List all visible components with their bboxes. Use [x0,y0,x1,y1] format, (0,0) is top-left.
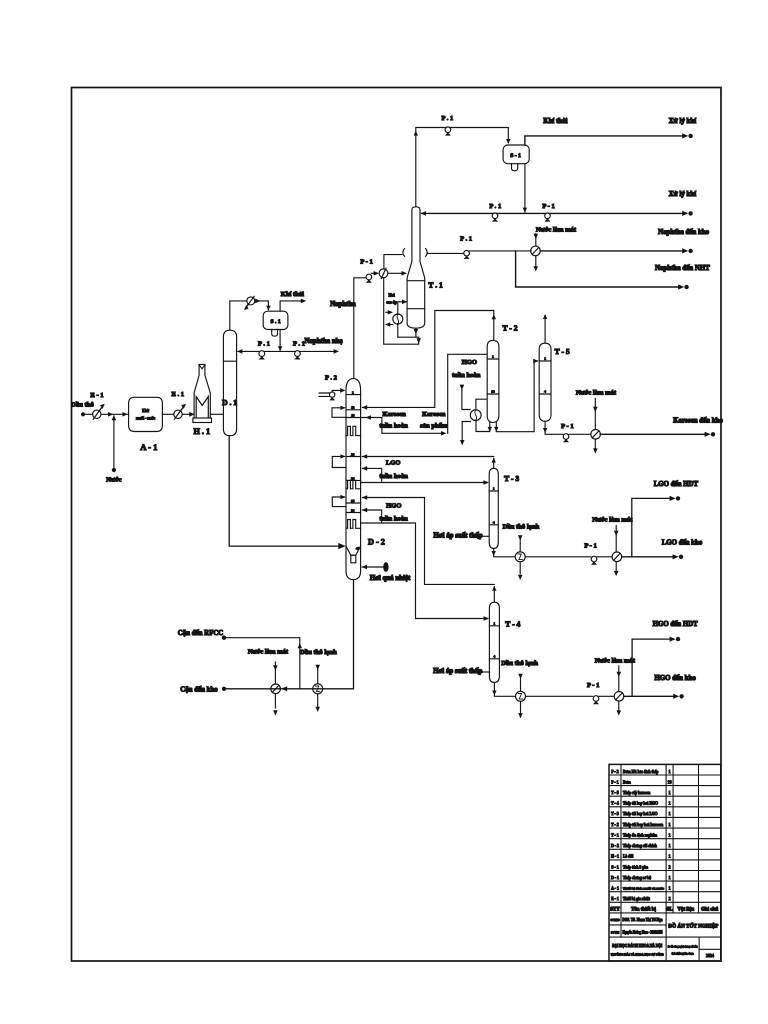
tray 1 [346,391,361,395]
svg-text:2: 2 [669,897,671,901]
svg-text:Tháp chưng sơ bộ: Tháp chưng sơ bộ [623,876,651,880]
svg-text:P . 2: P . 2 [325,374,338,381]
svg-text:Dầu thô lạnh: Dầu thô lạnh [503,524,540,531]
svg-text:Hơi áp suất thấp: Hơi áp suất thấp [433,532,482,539]
svg-text:tuần hoàn: tuần hoàn [452,372,481,379]
cooling water at HGO cooler [595,657,636,715]
wire: T-2 bottoms to T-5 [494,359,539,432]
svg-text:Cặn đến kho: Cặn đến kho [180,687,218,694]
packing below tray 38 [346,520,361,529]
svg-text:Tháp tái bay hơi HGO: Tháp tái bay hơi HGO [623,802,658,806]
svg-text:D . 1: D . 1 [222,398,237,407]
svg-text:18: 18 [491,390,495,394]
svg-text:E - 1: E - 1 [90,392,103,399]
svg-text:P . 1: P . 1 [441,115,453,122]
wire: "LGO đến kho" product line [622,540,703,560]
svg-text:1: 1 [669,834,671,838]
title block signature rows [610,918,718,934]
cold crude in/out at HGO exchanger [501,660,538,718]
svg-text:Bơm hồi lưu đỉnh tháp: Bơm hồi lưu đỉnh tháp [623,770,658,774]
wire: A-1 to exchanger E-1b [162,413,173,415]
pumparound loop at trays 12-15 (left) [332,406,346,418]
svg-text:P . 1: P . 1 [460,236,472,243]
crude preheat exchanger on LGO line [515,552,525,562]
svg-text:1: 1 [494,621,496,625]
svg-text:10: 10 [668,780,672,784]
svg-text:HGO đến kho: HGO đến kho [654,675,696,682]
pump P-1 (D-1 reflux) [258,340,270,359]
tray 12 [346,406,361,410]
wire: T-2 feed riser to top [448,354,487,433]
title block equipment list text [611,770,672,901]
wire: T-2 overhead vapour return to tray 12 [362,311,496,410]
svg-text:4: 4 [493,520,495,524]
svg-text:T - 2: T - 2 [502,323,517,332]
svg-text:HGO đến HDT: HGO đến HDT [653,621,699,628]
pumparound loop at trays 35-38 (left) [332,495,346,507]
svg-text:1: 1 [669,823,671,827]
svg-text:Naphtha: Naphtha [330,301,356,308]
svg-text:Kerosen: Kerosen [383,411,407,418]
wire: T-3 overhead vapour return to tray 20 [362,454,496,468]
svg-text:ĐỒ ÁN TỐT NGHIỆP: ĐỒ ÁN TỐT NGHIỆP [668,922,718,930]
svg-text:TRƯỜNG HÓA VÀ KHOA HỌC SỰ SỐNG: TRƯỜNG HÓA VÀ KHOA HỌC SỰ SỐNG [611,951,664,956]
HP steam stubs "Hơi cao áp" [385,294,397,327]
wire: "Cặn đến RFCC" branch [178,630,302,689]
svg-text:S - 1: S - 1 [611,865,618,869]
svg-text:GVHD: GVHD [610,918,620,922]
wire: LGO line to pump [525,556,590,558]
separator S-1 (D-1 overhead drum) [263,311,288,336]
pump P-1 (LGO product) [584,542,612,564]
svg-text:1: 1 [669,844,671,848]
svg-text:Sơ đồ công nghệ chưng cất dầu: Sơ đồ công nghệ chưng cất dầu [668,945,698,949]
tray 15 [346,413,361,417]
svg-text:Kerosen: Kerosen [422,411,446,418]
svg-text:Dầu thô lạnh: Dầu thô lạnh [300,649,337,656]
cooling water at LGO cooler [592,517,633,577]
svg-text:1: 1 [669,802,671,806]
svg-text:2: 2 [669,865,671,869]
wire: T-5 vent [543,314,547,343]
svg-text:Naphtha nhẹ: Naphtha nhẹ [304,338,342,345]
svg-text:Xử lý khí: Xử lý khí [669,118,697,125]
svg-text:T - 4: T - 4 [611,802,619,806]
svg-text:15: 15 [351,413,355,417]
wire: "Kerosen đến kho" product line [600,418,723,437]
svg-text:SVTH: SVTH [611,930,620,934]
wire: T-1 bottoms to reboiler header [384,278,421,345]
svg-text:D - 2: D - 2 [368,538,385,547]
svg-text:H . 1: H . 1 [193,427,210,436]
svg-text:Tháp tái bay hơi LGO: Tháp tái bay hơi LGO [623,812,658,816]
heat exchanger E-1 (first preheater) [90,392,104,419]
column D-2 (main crude column) shell [346,379,385,580]
wire: T-3 bottoms to LGO product line [492,549,515,557]
wire: D-1 overhead to condenser [230,301,247,330]
svg-text:Kerosen đến kho: Kerosen đến kho [673,418,723,425]
wire: "LGO đến HDT" branch [632,481,699,557]
svg-text:43: 43 [356,547,360,551]
wire: T-5 bottoms to kerosene product line [543,421,563,434]
HGO heating medium stubs at T-2 reboiler [452,359,481,446]
svg-text:1: 1 [493,487,495,491]
cold crude in/out at LGO exchanger [503,524,540,580]
svg-text:S . 1: S . 1 [271,319,281,325]
label kerosene product [420,411,448,429]
reboiler of T-1 [393,300,407,338]
svg-text:1: 1 [669,791,671,795]
svg-text:Tháp chưng cất chính: Tháp chưng cất chính [623,844,657,848]
svg-text:Tên thiết bị: Tên thiết bị [631,907,656,912]
label kerosene recirculation [379,411,408,429]
svg-text:Cặn đến RFCC: Cặn đến RFCC [178,630,224,637]
svg-text:Nước làm mát: Nước làm mát [248,648,289,655]
svg-text:A - 1: A - 1 [140,442,157,452]
svg-text:4: 4 [494,654,496,658]
cooling water at kerosene cooler [576,389,617,453]
svg-text:Nước: Nước [106,477,121,484]
LGO product cooler [612,552,622,562]
wire: "Naphtha đến NHT" branch [516,251,711,290]
pump P-2 (top reflux) with suction stub [319,374,345,400]
svg-text:Thiết bị tách muối và nước: Thiết bị tách muối và nước [623,887,664,891]
svg-text:tuần hoàn: tuần hoàn [379,515,408,522]
desalter A-1 [129,397,163,452]
LP steam inlet at T-3 [433,532,488,539]
svg-text:LGO: LGO [386,459,401,466]
LP steam inlet at T-4 [433,668,490,675]
svg-text:Nước làm mát: Nước làm mát [536,226,577,233]
wire: HGO draw to T-4 with recirculation tee [361,502,489,621]
svg-text:Vật liệu: Vật liệu [677,907,694,912]
svg-text:Nước làm mát: Nước làm mát [595,657,636,664]
svg-text:E - 1: E - 1 [611,897,619,901]
svg-text:P . 1: P . 1 [258,340,270,347]
crude preheat exchanger on residue line [313,684,323,694]
node: water inlet "Nước" [106,468,121,484]
svg-text:S - 1: S - 1 [510,153,521,159]
wire: "HGO đến HDT" branch [632,621,698,697]
HGO product cooler [614,692,624,702]
wire: kerosene draw from tray 15 to T-2 feed riser [361,415,447,435]
svg-text:T - 3: T - 3 [611,812,619,816]
column T-5 (kerosene dryer) [539,343,570,421]
column D-1 (pre-flash) [222,330,237,436]
svg-text:HGO: HGO [462,359,477,366]
wire: S-1b vapour "Khí thải" to gas treatment [525,118,696,145]
wire: D-2 bottoms residue line [180,580,353,694]
wire: S-1a vapour "Khí thải" vent [280,291,306,311]
svg-text:P - 1: P - 1 [587,682,599,689]
svg-text:Naphtha đến NHT: Naphtha đến NHT [655,265,710,272]
svg-text:Tháp tái bay hơi kerosen: Tháp tái bay hơi kerosen [623,823,663,827]
wire: LGO draw to T-3 with recirculation tee [361,459,489,484]
svg-text:Hơi áp suất thấp: Hơi áp suất thấp [433,668,482,675]
wire: "HGO đến kho" product line [624,675,697,699]
thermosiphon loop T-2 bottom to reboiler [476,421,492,432]
svg-text:35: 35 [351,499,355,503]
wire: D-1 bottoms to D-2 feed [229,436,346,550]
svg-text:12: 12 [351,406,355,410]
wire: S-1b liquid header (reflux + to gas treatment) [421,164,697,216]
svg-text:Nước làm mát: Nước làm mát [592,517,633,524]
wire: E-1a to desalter A-1 with junction arrows [101,412,129,417]
wire: T-1 overhead to top separator [414,128,511,207]
svg-text:P . 1: P . 1 [293,340,305,347]
svg-text:Bơm: Bơm [623,780,631,784]
pump P-1 (HGO product) [587,682,614,704]
reboiler of T-2 [470,399,486,420]
svg-text:D - 1: D - 1 [611,876,619,880]
wire: water riser to crude line [112,415,116,468]
column T-3 (LGO stripper) [489,468,519,548]
cooling water in/out at naphtha cooler [534,226,577,271]
superheated steam inlet "Hơi quá nhiệt" [362,562,411,582]
wire: E-1b to furnace H-1 [182,412,194,417]
svg-text:T . 1: T . 1 [428,281,443,290]
svg-text:T - 5: T - 5 [611,791,619,795]
svg-text:Khí thải: Khí thải [543,118,567,125]
svg-text:LGO đến kho: LGO đến kho [662,540,703,547]
svg-text:SL: SL [667,907,674,912]
svg-text:P - 1: P - 1 [542,203,554,210]
svg-text:Lò đốt: Lò đốt [623,855,634,859]
svg-text:T - 4: T - 4 [505,620,520,629]
border frame [72,88,722,962]
pump P-1 (light naphtha) [293,340,305,359]
svg-text:HGO: HGO [386,502,401,509]
wire: stabilized naphtha line to cooler [427,252,463,254]
svg-text:E . 1: E . 1 [171,391,184,398]
svg-text:1: 1 [669,855,671,859]
svg-text:Nước làm mát: Nước làm mát [576,389,617,396]
condenser on D-1 overhead [244,296,255,310]
svg-text:2024: 2024 [706,954,714,958]
pump P-1 (T-1 feed) [360,259,378,283]
naphtha product cooler [531,246,541,256]
svg-text:STT: STT [610,907,620,912]
wire: exchanger to T-1 feed nozzle [388,271,407,276]
svg-text:Tháp ổn định naphtha: Tháp ổn định naphtha [623,833,657,838]
svg-text:T - 1: T - 1 [611,834,619,838]
svg-text:Ghi chú: Ghi chú [701,907,718,912]
wire: H-1 to column D-1 [210,413,223,415]
tray 38 [346,508,361,512]
title block table [609,764,721,961]
column T-1 (naphtha stabilizer) [407,207,443,328]
pump P-1 (naphtha to gas treatment) [542,203,554,222]
svg-text:sản phẩm: sản phẩm [420,422,448,429]
title block header row [610,907,718,912]
svg-text:4: 4 [544,390,546,394]
svg-text:P - 1: P - 1 [561,423,573,430]
svg-text:H - 1: H - 1 [611,855,619,859]
packing below tray 26 [346,480,361,488]
svg-text:1: 1 [669,812,671,816]
residue water cooler [271,684,281,694]
svg-text:tuần hoàn: tuần hoàn [379,473,408,480]
svg-text:P - 1: P - 1 [360,259,372,266]
svg-text:T - 3: T - 3 [504,474,519,483]
svg-text:A - 1: A - 1 [611,887,619,891]
svg-text:1: 1 [352,391,354,395]
svg-text:1: 1 [669,887,671,891]
svg-text:Xử lý khí: Xử lý khí [669,191,697,198]
svg-text:P . 1: P . 1 [489,203,501,210]
svg-text:T - 2: T - 2 [611,823,619,827]
svg-text:tuần hoàn: tuần hoàn [379,422,408,429]
svg-text:P - 2: P - 2 [611,770,618,774]
wire: bottoms exchanger outlet riser with line breaks [384,249,427,269]
pump P-1 (T-1 reflux) [489,203,501,222]
crude preheat exchanger on HGO line [516,691,526,701]
svg-text:P - 1: P - 1 [611,780,618,784]
wire: condenser to separator S-1a [255,299,271,311]
svg-text:thô nhiều phân đoạn: thô nhiều phân đoạn [672,952,694,956]
svg-text:T - 5: T - 5 [555,347,570,356]
pump P-1 (stabilized naphtha) [460,236,531,259]
svg-text:PGS. TS. Phạm Thị Tố Nga: PGS. TS. Phạm Thị Tố Nga [623,918,663,922]
svg-text:1: 1 [492,355,494,359]
svg-text:Tháp tách 3 pha: Tháp tách 3 pha [623,865,648,869]
svg-text:Thiết bị gia nhiệt: Thiết bị gia nhiệt [623,897,651,901]
svg-text:1: 1 [669,770,671,774]
svg-text:Khí thải: Khí thải [281,291,304,298]
svg-text:LGO đến HDT: LGO đến HDT [654,481,699,488]
pump P-1 (kerosene product) [561,423,590,443]
svg-text:Tháp sấy kerosen: Tháp sấy kerosen [623,791,650,795]
svg-text:Nguyễn Hoàng Nam - 20201855: Nguyễn Hoàng Nam - 20201855 [623,929,663,934]
svg-text:1: 1 [669,876,671,880]
wire: S-1a liquid down to reflux pumps [278,330,282,352]
wire: HGO line to pump [526,695,593,697]
pumparound loop at trays 20-26 (left) [332,454,346,467]
svg-text:20: 20 [351,452,355,456]
svg-text:D - 2: D - 2 [611,844,619,848]
svg-text:muối - nước: muối - nước [136,417,155,421]
svg-text:Dầu thô lạnh: Dầu thô lạnh [501,660,538,667]
node: crude oil inlet "Dầu thô" [71,402,94,417]
svg-text:ĐẠI HỌC BÁCH KHOA HÀ NỘI: ĐẠI HỌC BÁCH KHOA HÀ NỘI [612,943,662,948]
svg-text:Hơi: Hơi [389,294,395,298]
cold crude in/out at residue exchanger [300,649,337,712]
title block school / project cells [611,943,714,958]
pump P-1 (T-1 overhead) [441,115,453,136]
wire: naphtha pump header (reflux to D-1 / light naphtha) [237,338,343,354]
tray 35 [346,499,361,503]
wire: T-4 overhead vapour return to tray 35 [362,495,497,602]
furnace H-1 [193,364,212,436]
svg-text:1: 1 [544,357,546,361]
kerosene product cooler [591,430,601,440]
svg-text:cao áp: cao áp [386,300,396,304]
column T-2 (kerosene stripper) [487,323,518,422]
svg-text:Dầu thô: Dầu thô [71,402,94,409]
bottom funnel tray 43 and chimney [346,546,361,563]
feed/bottoms exchanger at T-1 [379,268,388,279]
svg-text:Naphtha đến kho: Naphtha đến kho [658,229,709,236]
tray 26 [346,476,361,480]
svg-text:Hơi quá nhiệt: Hơi quá nhiệt [370,575,411,582]
svg-text:26: 26 [351,476,355,480]
cooling water at residue cooler [248,648,289,715]
svg-text:P - 1: P - 1 [584,542,596,549]
wire: T-4 bottoms to HGO product line [492,683,515,697]
packing below tray 15 [346,426,361,435]
svg-text:38: 38 [351,508,355,512]
wire: D-2 overhead riser "Naphtha" [330,278,366,379]
wire: "Naphtha đến kho" product line [540,229,709,254]
svg-text:Khử: Khử [142,409,150,413]
heat exchanger E-1 (second preheater) [171,391,185,419]
column T-4 (HGO stripper) [489,602,520,682]
tray 20 [346,452,361,456]
separator S-1 (T-1 overhead drum) [503,145,529,171]
wire: crude inlet to exchanger E-1a [85,413,93,415]
